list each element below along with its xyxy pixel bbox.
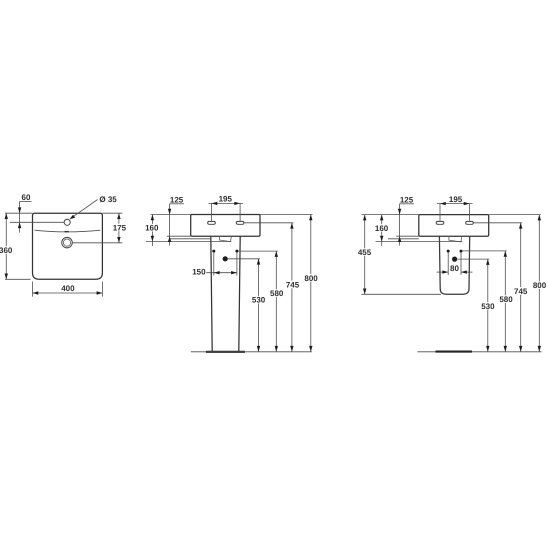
dim 125 arrows mid bbox=[168, 209, 171, 215]
svg-text:80: 80 bbox=[450, 264, 459, 273]
label 360 bbox=[0, 246, 13, 254]
basin side outline mid bbox=[191, 215, 260, 237]
tap slot left right-view bbox=[436, 221, 444, 224]
tap hole front bbox=[64, 219, 70, 225]
dim 160 arrows mid bbox=[151, 215, 154, 221]
dim 125 arrows right bbox=[398, 209, 401, 215]
dim 400 line bbox=[33, 292, 103, 294]
dim 580 arrows right bbox=[504, 251, 507, 257]
dim 175 arrows bbox=[117, 213, 120, 219]
dim 80 arrows bbox=[442, 270, 448, 273]
tap hole line mid bbox=[244, 222, 293, 224]
fixing hole right right-view bbox=[460, 250, 463, 253]
dim 175 line bbox=[118, 213, 120, 243]
pedestal right edge bbox=[239, 236, 240, 351]
basin bottom ext mid bbox=[167, 235, 191, 237]
dim 530 arrows mid bbox=[257, 259, 260, 265]
label 455 bbox=[357, 248, 372, 256]
dim 125 tick right bbox=[400, 203, 414, 205]
dim 150 arrows mid bbox=[214, 271, 220, 274]
svg-text:60: 60 bbox=[22, 193, 31, 202]
svg-text:195: 195 bbox=[219, 195, 233, 204]
dim 125 line right bbox=[399, 204, 401, 246]
dim 360 line bbox=[5, 213, 7, 279]
svg-text:800: 800 bbox=[533, 281, 547, 290]
label 530 right bbox=[480, 302, 495, 310]
lip line A right-view bbox=[388, 238, 419, 240]
drain hole right-view bbox=[452, 257, 457, 262]
svg-text:455: 455 bbox=[358, 248, 372, 257]
dim 580 arrows mid bbox=[275, 251, 278, 257]
trap cover mid bbox=[220, 236, 232, 241]
dim 195 arrows right bbox=[440, 202, 446, 205]
svg-text:580: 580 bbox=[499, 295, 513, 304]
svg-text:160: 160 bbox=[375, 224, 389, 233]
trap cover right-view bbox=[449, 236, 462, 242]
label 175 bbox=[112, 224, 127, 232]
dim 60 tick bbox=[20, 200, 32, 202]
dim 80 ext lines bbox=[447, 253, 449, 275]
basin inner rim line bbox=[35, 230, 101, 232]
dim 195 arrows mid bbox=[212, 202, 218, 205]
dim 745 arrows right bbox=[519, 223, 522, 229]
dim 800 arrows right bbox=[538, 215, 541, 221]
dim 580 line mid bbox=[275, 251, 277, 352]
basin bottom extension line bbox=[5, 278, 31, 280]
label 580 right bbox=[499, 295, 514, 303]
dim 800 line right bbox=[538, 215, 540, 352]
dim 455 arrows bbox=[363, 215, 366, 221]
dim 530 line mid bbox=[258, 259, 260, 352]
overflow slot mark front bbox=[65, 231, 69, 233]
overflow hole outer bbox=[62, 237, 73, 248]
svg-text:195: 195 bbox=[449, 195, 463, 204]
floor line mid bbox=[191, 351, 312, 353]
label 530 mid bbox=[251, 296, 266, 304]
basin top extension line bbox=[5, 212, 33, 214]
svg-text:175: 175 bbox=[113, 223, 127, 232]
svg-text:Ø 35: Ø 35 bbox=[99, 195, 117, 204]
floor line right bbox=[417, 351, 541, 353]
dim 745 line mid bbox=[291, 223, 293, 352]
tap hole extension line bbox=[10, 221, 64, 223]
overflow extension line bbox=[72, 242, 122, 244]
fixing hole line mid bbox=[238, 250, 277, 252]
leader line to tap hole bbox=[72, 200, 98, 218]
fixing hole left mid bbox=[212, 250, 215, 253]
dim 60 arrows bbox=[18, 207, 21, 213]
svg-text:125: 125 bbox=[170, 195, 184, 204]
top extension left right-view bbox=[362, 214, 419, 216]
dim 125 tick mid bbox=[170, 203, 184, 205]
dim 195 line mid bbox=[209, 202, 244, 204]
svg-text:530: 530 bbox=[252, 296, 266, 305]
tap slot right mid bbox=[236, 221, 244, 224]
dim 195 ext lines right bbox=[439, 204, 441, 221]
label 745 right bbox=[513, 287, 528, 295]
svg-text:530: 530 bbox=[481, 302, 495, 311]
dim 800 arrows mid bbox=[309, 215, 312, 221]
dim 150 ext lines mid bbox=[213, 253, 215, 276]
dim 800 line mid bbox=[310, 215, 312, 352]
tap slot right right-view bbox=[466, 221, 474, 224]
dim 60 line bbox=[19, 201, 21, 232]
dim 530 arrows right bbox=[486, 259, 489, 265]
dim 160 arrows right bbox=[380, 215, 383, 221]
svg-text:745: 745 bbox=[286, 280, 300, 289]
svg-text:125: 125 bbox=[400, 195, 414, 204]
basin side outline right bbox=[419, 215, 489, 237]
label 580 mid bbox=[269, 289, 284, 297]
fixing hole line right-view bbox=[463, 250, 507, 252]
svg-text:160: 160 bbox=[145, 224, 159, 233]
dim 160 line right bbox=[381, 215, 383, 246]
dim 195 line right bbox=[437, 203, 473, 205]
dim 580 line right bbox=[504, 251, 506, 352]
dim 150 line mid bbox=[206, 272, 237, 274]
pedestal foot bbox=[206, 351, 245, 353]
tap hole line right-view bbox=[473, 222, 522, 224]
dim 195 ext lines mid bbox=[211, 203, 213, 221]
fixing hole right mid bbox=[235, 250, 238, 253]
lip line B right-view bbox=[376, 241, 463, 243]
drain hole line right-view bbox=[457, 258, 489, 260]
label 745 mid bbox=[285, 281, 300, 289]
label 800 mid bbox=[304, 274, 319, 282]
dim 160 line mid bbox=[151, 215, 153, 247]
label 160 right bbox=[374, 224, 389, 232]
dim 745 arrows mid bbox=[290, 223, 293, 229]
dim 400 ext lines bbox=[32, 282, 34, 297]
label 800 right bbox=[532, 281, 547, 289]
semi-pedestal bottom ext bbox=[362, 293, 442, 295]
svg-text:400: 400 bbox=[61, 284, 75, 293]
basin top right extension bbox=[102, 212, 122, 214]
label 160 mid bbox=[144, 224, 159, 232]
floor shadow right bbox=[436, 351, 473, 353]
svg-text:580: 580 bbox=[270, 289, 284, 298]
svg-text:745: 745 bbox=[514, 287, 528, 296]
top extension right mid bbox=[260, 214, 313, 216]
basin front outline bbox=[33, 213, 103, 279]
dim 80 line bbox=[437, 271, 449, 273]
overflow hole inner bbox=[63, 239, 70, 246]
lip line B mid bbox=[146, 241, 231, 243]
svg-text:150: 150 bbox=[192, 268, 206, 277]
lip line A mid bbox=[170, 238, 211, 240]
svg-text:800: 800 bbox=[304, 274, 318, 283]
dim 530 line right bbox=[487, 259, 489, 352]
basin bottom ext right-view bbox=[396, 235, 419, 237]
dim 400 arrows bbox=[33, 291, 39, 294]
svg-text:360: 360 bbox=[0, 246, 13, 255]
dim 455 line bbox=[364, 215, 366, 295]
dim 745 line right bbox=[520, 223, 522, 352]
dim 125 line mid bbox=[169, 204, 171, 246]
semi-pedestal outline bbox=[439, 236, 469, 294]
tap slot left mid bbox=[208, 221, 216, 224]
fixing hole left right-view bbox=[447, 250, 450, 253]
drain hole mid bbox=[223, 256, 228, 261]
top extension right right-view bbox=[489, 214, 541, 216]
drain hole line mid bbox=[228, 258, 260, 260]
top extension left mid bbox=[150, 214, 190, 216]
dim 360 arrows bbox=[5, 213, 8, 219]
pedestal left edge bbox=[211, 236, 212, 351]
